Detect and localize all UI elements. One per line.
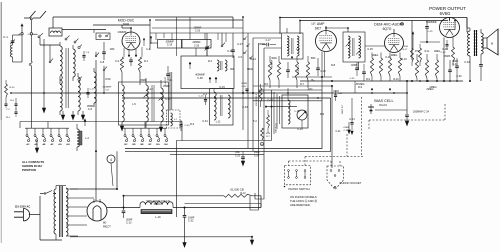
svg-text:C-27: C-27 — [237, 42, 243, 46]
svg-text:.05MF: .05MF — [444, 56, 451, 58]
svg-text:B+: B+ — [311, 78, 315, 82]
svg-text:6M: 6M — [230, 67, 234, 71]
svg-text:BG: BG — [156, 144, 160, 146]
svg-text:RG-D4: RG-D4 — [379, 104, 387, 107]
svg-text:1MEG: 1MEG — [372, 55, 379, 57]
svg-text:.02MF: .02MF — [350, 63, 358, 67]
svg-text:5000MMF: 5000MMF — [426, 21, 437, 24]
svg-text:C-11: C-11 — [167, 79, 173, 82]
svg-text:C-13: C-13 — [126, 222, 132, 225]
svg-text:61,000 CB: 61,000 CB — [230, 188, 243, 192]
svg-text:THE LINKS Ⓐ AND Ⓑ: THE LINKS Ⓐ AND Ⓑ — [290, 199, 317, 203]
svg-text:C-20: C-20 — [254, 156, 260, 158]
svg-text:M: M — [491, 42, 493, 46]
svg-text:R-10: R-10 — [393, 78, 399, 81]
svg-text:AC: AC — [26, 143, 30, 146]
svg-text:200MMF C-24: 200MMF C-24 — [413, 111, 430, 114]
svg-text:C-30: C-30 — [227, 49, 233, 53]
svg-text:BE: BE — [140, 144, 144, 146]
svg-text:C-31: C-31 — [202, 119, 208, 123]
svg-text:C-8: C-8 — [100, 60, 105, 64]
svg-text:20MMF: 20MMF — [194, 28, 202, 30]
svg-text:C-25: C-25 — [350, 78, 356, 80]
svg-text:PHONO SOCKET: PHONO SOCKET — [340, 181, 362, 185]
svg-text:C-2: C-2 — [203, 92, 208, 96]
svg-text:C-17: C-17 — [267, 98, 273, 102]
svg-text:470M: 470M — [402, 46, 408, 48]
svg-text:C-29: C-29 — [428, 31, 434, 33]
svg-text:R-12: R-12 — [240, 192, 246, 195]
svg-text:BIAS CELL: BIAS CELL — [374, 99, 393, 103]
svg-text:R-7: R-7 — [300, 83, 305, 86]
svg-text:500MMF: 500MMF — [272, 59, 274, 68]
svg-text:L-12: L-12 — [216, 122, 221, 124]
svg-text:PHONO SWITCH: PHONO SWITCH — [288, 187, 309, 191]
svg-text:115-125V AC: 115-125V AC — [15, 204, 31, 208]
svg-text:L-4: L-4 — [85, 137, 89, 140]
svg-text:AD: AD — [34, 143, 38, 146]
svg-text:C-25: C-25 — [367, 47, 373, 51]
svg-text:C-33: C-33 — [242, 105, 248, 109]
svg-text:R-8: R-8 — [331, 63, 336, 67]
svg-text:C-28: C-28 — [442, 47, 448, 51]
svg-text:C-32: C-32 — [188, 220, 194, 223]
svg-text:R-9: R-9 — [358, 85, 363, 89]
svg-text:.05MF: .05MF — [140, 79, 147, 82]
svg-text:L-16: L-16 — [155, 215, 161, 219]
svg-text:C-31: C-31 — [453, 64, 459, 66]
svg-text:C-26: C-26 — [385, 55, 391, 59]
svg-text:C-33: C-33 — [344, 130, 350, 132]
svg-text:C-23: C-23 — [235, 155, 241, 158]
svg-text:C-26: C-26 — [194, 45, 200, 48]
svg-text:46MF: 46MF — [254, 152, 260, 154]
svg-text:C-15: C-15 — [219, 85, 225, 89]
svg-text:2MEG: 2MEG — [429, 85, 436, 89]
svg-text:100M R-5: 100M R-5 — [298, 64, 300, 74]
svg-text:BH: BH — [164, 144, 168, 146]
svg-text:I.F. AMP: I.F. AMP — [311, 22, 325, 26]
svg-text:C-38: C-38 — [197, 77, 203, 80]
svg-text:C-16: C-16 — [297, 127, 303, 131]
svg-text:C-18: C-18 — [320, 70, 326, 73]
svg-text:C-34: C-34 — [464, 60, 470, 64]
svg-text:1MEG: 1MEG — [434, 51, 441, 53]
svg-text:C-21: C-21 — [349, 117, 355, 121]
svg-text:50M R-15: 50M R-15 — [276, 122, 278, 132]
svg-text:R-4: R-4 — [260, 89, 265, 93]
svg-text:C-9: C-9 — [115, 60, 120, 63]
svg-text:C-13: C-13 — [90, 89, 96, 91]
svg-text:C-36: C-36 — [456, 75, 462, 78]
svg-text:2MEG: 2MEG — [391, 55, 398, 57]
svg-text:AVC: AVC — [307, 87, 312, 91]
svg-text:C-5: C-5 — [238, 56, 243, 59]
svg-text:R-11: R-11 — [425, 51, 431, 53]
svg-text:C-17: C-17 — [266, 40, 272, 42]
svg-text:C-26: C-26 — [195, 31, 201, 33]
svg-text:R-6: R-6 — [264, 83, 269, 86]
svg-text:R-5: R-5 — [320, 112, 325, 116]
svg-text:C-6: C-6 — [88, 107, 93, 111]
svg-text:C-1: C-1 — [3, 35, 8, 39]
svg-text:C-19: C-19 — [167, 44, 173, 47]
svg-text:3800Ω: 3800Ω — [153, 203, 160, 206]
svg-text:AG: AG — [58, 143, 62, 146]
svg-text:R-10: R-10 — [401, 57, 407, 61]
svg-text:4: 4 — [110, 158, 112, 162]
svg-text:POSITION: POSITION — [22, 168, 36, 172]
svg-text:20M: 20M — [110, 49, 115, 51]
svg-text:.02MF: .02MF — [241, 83, 248, 85]
svg-text:AH: AH — [66, 143, 70, 146]
svg-text:C-12: C-12 — [147, 87, 153, 91]
svg-text:C-10: C-10 — [165, 98, 171, 101]
svg-text:ON PHONO MODELS: ON PHONO MODELS — [290, 195, 317, 199]
svg-text:MEG R-T: MEG R-T — [342, 104, 344, 114]
svg-text:L-9: L-9 — [296, 47, 300, 51]
svg-text:300Ω: 300Ω — [271, 58, 277, 60]
svg-text:50M: 50M — [311, 58, 316, 60]
svg-text:6V6G: 6V6G — [440, 11, 451, 16]
svg-text:BD: BD — [132, 144, 136, 146]
svg-text:R-2: R-2 — [208, 59, 213, 63]
svg-text:.05MF: .05MF — [452, 61, 459, 63]
svg-text:6A8: 6A8 — [123, 23, 129, 27]
svg-text:C-32: C-32 — [242, 86, 248, 88]
svg-text:BC: BC — [124, 144, 128, 146]
svg-text:R-1: R-1 — [144, 60, 149, 63]
svg-text:R-20: R-20 — [10, 87, 16, 89]
svg-text:47M: 47M — [266, 133, 270, 135]
svg-text:R-14: R-14 — [250, 57, 256, 61]
svg-text:ARE REMOVED.: ARE REMOVED. — [290, 203, 311, 207]
svg-text:C-30: C-30 — [441, 52, 447, 54]
svg-text:.02MF: .02MF — [343, 127, 350, 129]
svg-text:C-21: C-21 — [336, 131, 342, 133]
svg-text:MEG: MEG — [247, 67, 253, 71]
svg-text:100,000 R-8: 100,000 R-8 — [256, 93, 258, 106]
svg-text:C-18: C-18 — [333, 89, 339, 93]
svg-text:AE: AE — [42, 143, 46, 146]
svg-text:G: G — [28, 34, 30, 36]
svg-text:20MMF: 20MMF — [118, 30, 127, 34]
svg-text:.05MF: .05MF — [258, 42, 266, 46]
svg-text:R-3: R-3 — [190, 122, 195, 126]
svg-text:6Q7G: 6Q7G — [383, 27, 392, 31]
svg-text:.25MF: .25MF — [162, 84, 170, 88]
svg-text:RECT: RECT — [103, 225, 111, 229]
svg-text:R-9: R-9 — [366, 78, 371, 81]
svg-text:T-2: T-2 — [253, 119, 257, 123]
svg-text:6K7: 6K7 — [315, 27, 321, 31]
svg-text:R-17: R-17 — [403, 49, 409, 51]
svg-text:L-5: L-5 — [132, 103, 136, 106]
svg-text:OSC: OSC — [105, 77, 111, 81]
